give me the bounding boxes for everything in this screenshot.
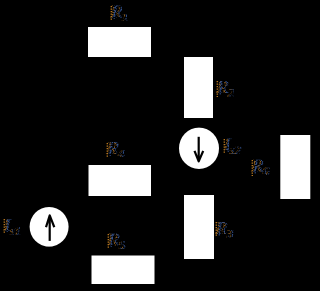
resistor R3 <box>184 195 214 259</box>
label I1 <box>2 215 22 238</box>
resistor R5 <box>92 256 155 285</box>
resistor R4 <box>89 165 152 196</box>
label R5 <box>106 230 126 253</box>
label R2 <box>215 77 235 100</box>
current source I1 <box>30 207 69 247</box>
label R1 <box>109 2 129 25</box>
label R6 <box>250 156 270 179</box>
current source I2 <box>179 128 219 169</box>
label R4 <box>105 138 125 161</box>
label R3 <box>214 218 234 241</box>
resistor R1 <box>88 27 151 57</box>
resistor R6 <box>280 135 310 199</box>
label I2 <box>222 135 242 158</box>
resistor R2 <box>184 57 213 118</box>
